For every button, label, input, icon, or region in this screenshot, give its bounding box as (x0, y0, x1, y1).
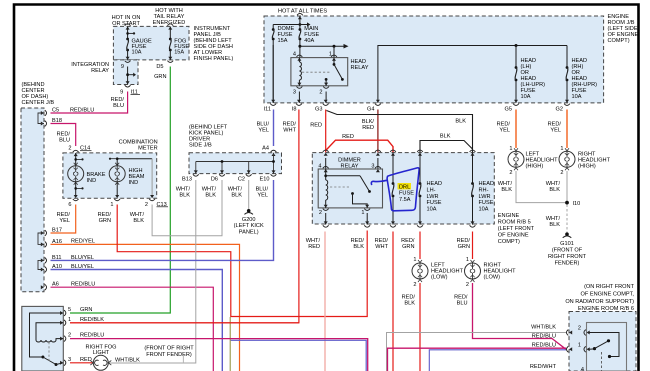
svg-text:4: 4 (581, 367, 584, 371)
head relay coil (298, 58, 300, 62)
fog relay pin 5 (60, 311, 63, 315)
svg-text:2: 2 (68, 146, 71, 152)
svg-text:(HIGH): (HIGH) (526, 163, 544, 169)
svg-text:2: 2 (560, 170, 563, 176)
svg-text:2: 2 (145, 202, 148, 208)
svg-text:2: 2 (68, 333, 71, 339)
connector G3 (324, 100, 328, 103)
svg-text:COMPT): COMPT) (498, 239, 520, 245)
svg-text:RED/BLU: RED/BLU (532, 342, 556, 348)
bulb HIGH BEAM IND (109, 166, 125, 182)
high beam ind top wire (116, 159, 118, 166)
svg-text:HOT AT ALL TIMES: HOT AT ALL TIMES (278, 8, 327, 14)
svg-text:LWR: LWR (479, 194, 491, 200)
svg-text:G4: G4 (367, 106, 374, 112)
svg-text:2: 2 (319, 210, 322, 216)
svg-text:1: 1 (466, 257, 469, 263)
svg-text:G3: G3 (315, 106, 322, 112)
svg-text:YEL: YEL (257, 193, 268, 199)
svg-text:FRONT FENDER): FRONT FENDER) (146, 352, 192, 358)
dimmer relay switch (326, 175, 360, 177)
svg-text:OF ENGINE: OF ENGINE (498, 233, 529, 239)
svg-text:RED/BLU: RED/BLU (70, 108, 94, 114)
svg-text:RELAY: RELAY (91, 68, 109, 74)
connector A10 (41, 268, 44, 272)
svg-text:BLK: BLK (549, 222, 560, 228)
instrument panel J/B box (113, 26, 189, 60)
svg-text:BLU: BLU (113, 103, 124, 109)
svg-text:METER: METER (138, 146, 158, 152)
svg-text:I11: I11 (264, 106, 271, 112)
svg-text:1: 1 (560, 146, 563, 152)
svg-text:RED/WHT: RED/WHT (530, 364, 557, 370)
svg-text:10A: 10A (479, 207, 489, 213)
connector B17 (41, 231, 44, 235)
fog relay mechanical link (48, 342, 50, 363)
wire WHT/BLK C13 to D6 (152, 180, 222, 236)
svg-text:5: 5 (68, 307, 71, 313)
svg-text:7.5A: 7.5A (399, 197, 411, 203)
high beam ind lower wire (116, 182, 118, 197)
fog relay pin 1 (60, 321, 63, 325)
wire WHT/BLK LH high to I10 (516, 171, 565, 203)
connector B13 (194, 170, 198, 173)
wire G4 to head fuses bus (378, 46, 567, 103)
svg-text:COMPT): COMPT) (608, 38, 630, 44)
bulb BRAKE IND (68, 166, 84, 182)
ground G101 (565, 232, 569, 236)
svg-text:GRN: GRN (80, 307, 92, 313)
svg-text:(ON RIGHT FRONT: (ON RIGHT FRONT (584, 284, 635, 290)
svg-text:WHT/BLK: WHT/BLK (531, 325, 556, 331)
connector B11 (41, 258, 44, 262)
head LH fuse 10A (515, 46, 517, 68)
head relay switch (333, 58, 335, 65)
R/B6 dashed internal wire (601, 352, 603, 371)
svg-text:DIMMER: DIMMER (338, 157, 361, 163)
svg-text:YEL: YEL (499, 128, 510, 134)
svg-text:RED/: RED/ (457, 238, 471, 244)
wire head relay pin3 to I8 (298, 92, 300, 103)
connector C5 (41, 111, 44, 115)
wire BLU/YEL I11 to A4 (273, 110, 275, 147)
dimmer relay coil (325, 169, 327, 180)
driver J/B internal bus (195, 162, 197, 174)
svg-text:BLK: BLK (133, 218, 144, 224)
svg-text:BLK: BLK (205, 193, 216, 199)
svg-text:15A: 15A (278, 38, 288, 44)
wire RED/GRN LH-LWR to left headlight low (419, 232, 421, 260)
wire RED/YEL A16 bus (51, 244, 240, 371)
wire BLK/RED G4 to dimmer pin 3 (377, 110, 379, 153)
dimmer relay top connector pin4 wire (324, 153, 328, 156)
svg-text:3: 3 (371, 164, 374, 170)
engine room J/B box (264, 16, 604, 103)
svg-text:ENERGIZED: ENERGIZED (153, 20, 186, 26)
R/B5 bottom connectors (324, 221, 328, 224)
head relay box (291, 58, 348, 86)
svg-text:G5: G5 (505, 107, 512, 113)
svg-text:I8: I8 (292, 106, 297, 112)
fog fuse bottom connector D5 (168, 57, 172, 60)
engine room R/B 5 box (312, 153, 494, 224)
svg-text:CENTER J/B: CENTER J/B (22, 100, 55, 106)
svg-text:LH-: LH- (427, 187, 436, 193)
svg-text:FUSE: FUSE (427, 200, 442, 206)
connector D6 (220, 170, 224, 173)
wire WHT/BLK RH high to I10 (566, 171, 568, 201)
integration relay pin 9 bottom connector I11 (126, 81, 130, 84)
svg-text:10A: 10A (427, 207, 437, 213)
head LH-LWR fuse 10A (418, 153, 422, 156)
junction I10 (565, 201, 569, 205)
wire RED/WHT DRL fuse down (392, 232, 394, 371)
svg-text:RED/BLU: RED/BLU (80, 333, 104, 339)
wire RED/GRN RH-LWR to right headlight low (472, 232, 474, 260)
svg-text:RED/BLK: RED/BLK (80, 317, 104, 323)
link B11-A10 inside center J/B (38, 260, 44, 269)
connector I11 engine J/B (271, 100, 275, 103)
wire RED/BLK LH low down (419, 283, 421, 371)
link B17-A16 inside center J/B (38, 233, 44, 244)
connector pin 2 C13 combination meter (150, 195, 154, 198)
svg-text:IND: IND (87, 178, 97, 184)
svg-text:RELAY: RELAY (351, 65, 369, 71)
bulb RIGHT FOG LIGHT (93, 355, 108, 370)
wire RED/BLU A6 bus (51, 287, 214, 371)
svg-text:C2: C2 (238, 177, 245, 183)
svg-text:FENDER): FENDER) (555, 261, 580, 267)
R/B6 internal switch (589, 333, 619, 357)
svg-text:BLU: BLU (457, 300, 468, 306)
head RH-LWR fuse 10A (471, 153, 475, 156)
svg-text:GRN: GRN (458, 244, 470, 250)
svg-text:B13: B13 (182, 177, 192, 183)
fog fuse 15A (168, 27, 172, 30)
wire RED/YEL G5 to left headlight high (515, 110, 517, 149)
connector G5 (514, 100, 518, 103)
fog relay box (22, 306, 64, 371)
svg-text:YEL: YEL (59, 218, 70, 224)
connector I8 (297, 100, 301, 103)
main fuse 40A (298, 16, 302, 19)
fog relay coil (36, 323, 63, 340)
svg-text:3: 3 (293, 90, 296, 96)
connector C2 (247, 170, 251, 173)
wire BLU/YEL A10 bus (51, 270, 223, 371)
svg-text:3: 3 (68, 357, 71, 363)
integration relay box (113, 60, 138, 85)
wire RED/BLU integration relay I11 to C5 (51, 92, 128, 114)
svg-text:10A: 10A (521, 94, 531, 100)
R/B6 inner relay box (587, 323, 627, 371)
svg-text:SIDE J/B: SIDE J/B (189, 142, 212, 148)
svg-text:(LOW): (LOW) (484, 275, 501, 281)
wire WHT/BLK to R/B6 pin2 (387, 333, 567, 371)
svg-text:1: 1 (68, 317, 71, 323)
svg-text:10A: 10A (132, 50, 142, 56)
svg-text:(LOW): (LOW) (431, 275, 448, 281)
wire RED/WHT I8 to fog relay pin 1 (70, 110, 299, 323)
wire WHT/BLK B13 to fog light (108, 180, 196, 363)
svg-text:DRL: DRL (399, 184, 410, 190)
integration relay pin 9 top connector (126, 57, 130, 60)
svg-text:ENGINE: ENGINE (498, 213, 520, 219)
svg-text:RH-: RH- (479, 187, 489, 193)
svg-text:RED: RED (80, 357, 92, 363)
svg-text:WHT: WHT (375, 244, 388, 250)
wire BLK from G3 to RH-LWR fuse (327, 111, 473, 153)
connector G2 (565, 100, 569, 103)
wire RED/BLU fog relay pin2 bus (70, 339, 368, 371)
svg-text:D6: D6 (211, 177, 218, 183)
connector C14 pin 2 (74, 153, 78, 156)
dimmer relay mechanical link (330, 186, 350, 188)
svg-text:9: 9 (120, 90, 123, 96)
svg-text:GRN: GRN (402, 244, 414, 250)
svg-text:1: 1 (509, 146, 512, 152)
combination meter box (63, 153, 157, 198)
svg-text:2: 2 (509, 170, 512, 176)
svg-text:(LEFT KICK: (LEFT KICK (234, 223, 264, 229)
head relay pin1 feed (333, 46, 335, 57)
svg-text:I10: I10 (573, 201, 581, 207)
svg-text:GRN: GRN (99, 218, 111, 224)
svg-text:BLK: BLK (353, 244, 364, 250)
svg-text:HEAD: HEAD (479, 181, 495, 187)
wire RED dimmer pin4 to DRL fuse (326, 140, 393, 152)
svg-text:2: 2 (466, 282, 469, 288)
svg-text:HEAD: HEAD (427, 181, 443, 187)
svg-text:10A: 10A (572, 94, 582, 100)
svg-text:YEL: YEL (550, 128, 561, 134)
svg-text:RED: RED (362, 125, 374, 131)
svg-text:C5: C5 (52, 108, 59, 114)
dimmer relay top connector pin3 wire (376, 153, 380, 156)
svg-text:RED/: RED/ (375, 238, 389, 244)
leader line fog light (182, 356, 184, 363)
wire RED G3 to dimmer pin 4 (325, 110, 327, 153)
wire BLU/YEL E10 to B11 (51, 180, 274, 260)
svg-text:1: 1 (110, 202, 113, 208)
fog relay switch blade (43, 357, 56, 365)
svg-text:9: 9 (121, 64, 124, 70)
fog relay pin 3 (60, 361, 63, 365)
svg-text:G101: G101 (560, 241, 574, 247)
svg-text:LWR: LWR (427, 194, 439, 200)
integration relay internal contact (127, 67, 129, 85)
wire BLU parallel lower (429, 350, 566, 371)
wire WHT/BLK dashed I10 to G101 (566, 205, 568, 233)
svg-text:(FRONT OF RIGHT: (FRONT OF RIGHT (144, 346, 194, 352)
svg-text:FINISH PANEL): FINISH PANEL) (194, 56, 234, 62)
DRL highlight (398, 183, 412, 189)
svg-text:RED/: RED/ (351, 238, 365, 244)
wire BLU/RED parallel bus (231, 340, 367, 371)
svg-text:PANEL): PANEL) (239, 229, 259, 235)
center J/B box (21, 108, 44, 292)
svg-text:WHT/: WHT/ (306, 238, 321, 244)
DRL fuse 7.5A (391, 153, 395, 156)
svg-text:HEAD: HEAD (351, 59, 367, 65)
connector G4 (376, 100, 380, 103)
wire RED/BLU B18 to combination meter C14 (51, 124, 76, 147)
svg-text:WHT: WHT (283, 128, 296, 134)
wire RED/BLU lower into R/B6 pin1 (388, 348, 567, 371)
connector pin 6 combination meter (74, 195, 78, 198)
svg-text:A4: A4 (262, 146, 269, 152)
svg-text:1: 1 (361, 210, 364, 216)
wire WHT/RED dimmer pin2 down (324, 232, 326, 371)
svg-text:BLK: BLK (501, 187, 512, 193)
svg-text:FUSE: FUSE (479, 200, 494, 206)
svg-text:COMBINATION: COMBINATION (119, 139, 158, 145)
connector B18 (41, 122, 44, 126)
svg-text:BLK: BLK (404, 300, 415, 306)
connector pin 1 combination meter (115, 195, 119, 198)
brake indicator lower wire (75, 182, 77, 197)
svg-text:BLK: BLK (455, 119, 466, 125)
fog relay internal from pin5 (30, 313, 64, 357)
svg-text:(LEFT FRONT: (LEFT FRONT (498, 226, 535, 232)
blue hand-drawn loop around DRL fuse (371, 168, 419, 211)
svg-text:1: 1 (413, 257, 416, 263)
wire GRN/RED stub down (229, 317, 231, 371)
dimmer relay box (318, 169, 382, 208)
svg-text:RED/BLU: RED/BLU (532, 333, 556, 339)
svg-text:BLK: BLK (179, 193, 190, 199)
driver side J/B box (189, 153, 282, 174)
gauge fuse 10A (126, 27, 130, 30)
svg-text:(HIGH): (HIGH) (578, 163, 596, 169)
svg-text:RIGHT FRONT: RIGHT FRONT (548, 254, 587, 260)
link C5-B18 inside center J/B (38, 113, 44, 124)
svg-text:YEL: YEL (258, 128, 269, 134)
svg-text:(FRONT OF: (FRONT OF (552, 248, 583, 254)
svg-text:RED/YEL: RED/YEL (71, 239, 95, 245)
engine room R/B 6 box (569, 312, 636, 371)
head relay mechanical link (302, 71, 330, 73)
wire GRN D5 to fog relay pin 5 (70, 67, 170, 314)
wire BLK from LH-LWR fuse junction (420, 141, 473, 153)
wire WHT/BLK C2 to ground G200 (248, 180, 250, 210)
svg-text:4: 4 (293, 51, 296, 57)
svg-text:OF ENGINE COMPT,: OF ENGINE COMPT, (581, 291, 635, 297)
svg-text:RED: RED (308, 244, 320, 250)
dome fuse 15A (272, 25, 274, 30)
connector E10 (272, 170, 276, 173)
wire RED/BLU RH low to R/B6 pin1 (473, 283, 567, 349)
connector A6 (41, 285, 44, 289)
wire dome fuse to I11 (272, 45, 274, 103)
svg-text:IND: IND (129, 180, 139, 186)
wire RED/YEL pin6 to B17 (51, 205, 76, 234)
brake indicator feed wire (75, 153, 77, 166)
svg-text:WHT/BLK: WHT/BLK (115, 357, 140, 363)
ground G200 (247, 209, 251, 213)
svg-text:BLK: BLK (440, 134, 451, 140)
head RH fuse 10A (566, 46, 568, 68)
svg-text:15A: 15A (174, 50, 184, 56)
svg-text:E10: E10 (260, 177, 270, 183)
svg-text:G200: G200 (242, 217, 256, 223)
connector A16 (41, 242, 44, 246)
svg-text:ROOM R/B 5: ROOM R/B 5 (498, 220, 531, 226)
svg-text:D5: D5 (156, 64, 163, 70)
svg-text:ON RADIATOR SUPPORT): ON RADIATOR SUPPORT) (565, 299, 634, 305)
wire RED/YEL G2 to right headlight high (566, 110, 568, 149)
bus from main fuse with arrow (298, 45, 301, 48)
svg-text:2: 2 (578, 325, 581, 331)
svg-text:RED: RED (310, 123, 322, 129)
wire RED fog relay pin3 to fog bulb (70, 362, 93, 364)
svg-text:4: 4 (318, 164, 321, 170)
svg-text:2: 2 (413, 282, 416, 288)
svg-text:BLU: BLU (59, 138, 70, 144)
svg-text:40A: 40A (304, 38, 314, 44)
svg-text:RED: RED (342, 134, 354, 140)
svg-text:BLK: BLK (231, 193, 242, 199)
fog relay pin 2 (60, 337, 63, 341)
svg-text:6: 6 (68, 202, 71, 208)
wire RED/BLK fog relay pin1 bus (70, 322, 299, 324)
wire RED/GRN pin1 to dimmer relay pin1 (117, 205, 367, 317)
svg-text:1: 1 (578, 342, 581, 348)
svg-text:FUSE: FUSE (399, 191, 414, 197)
wire head relay pin2 to G3 (325, 92, 327, 103)
svg-text:G2: G2 (556, 107, 563, 113)
svg-text:RED/: RED/ (401, 238, 415, 244)
svg-text:BLK: BLK (549, 187, 560, 193)
svg-text:2: 2 (319, 90, 322, 96)
svg-text:GRN: GRN (154, 74, 166, 80)
